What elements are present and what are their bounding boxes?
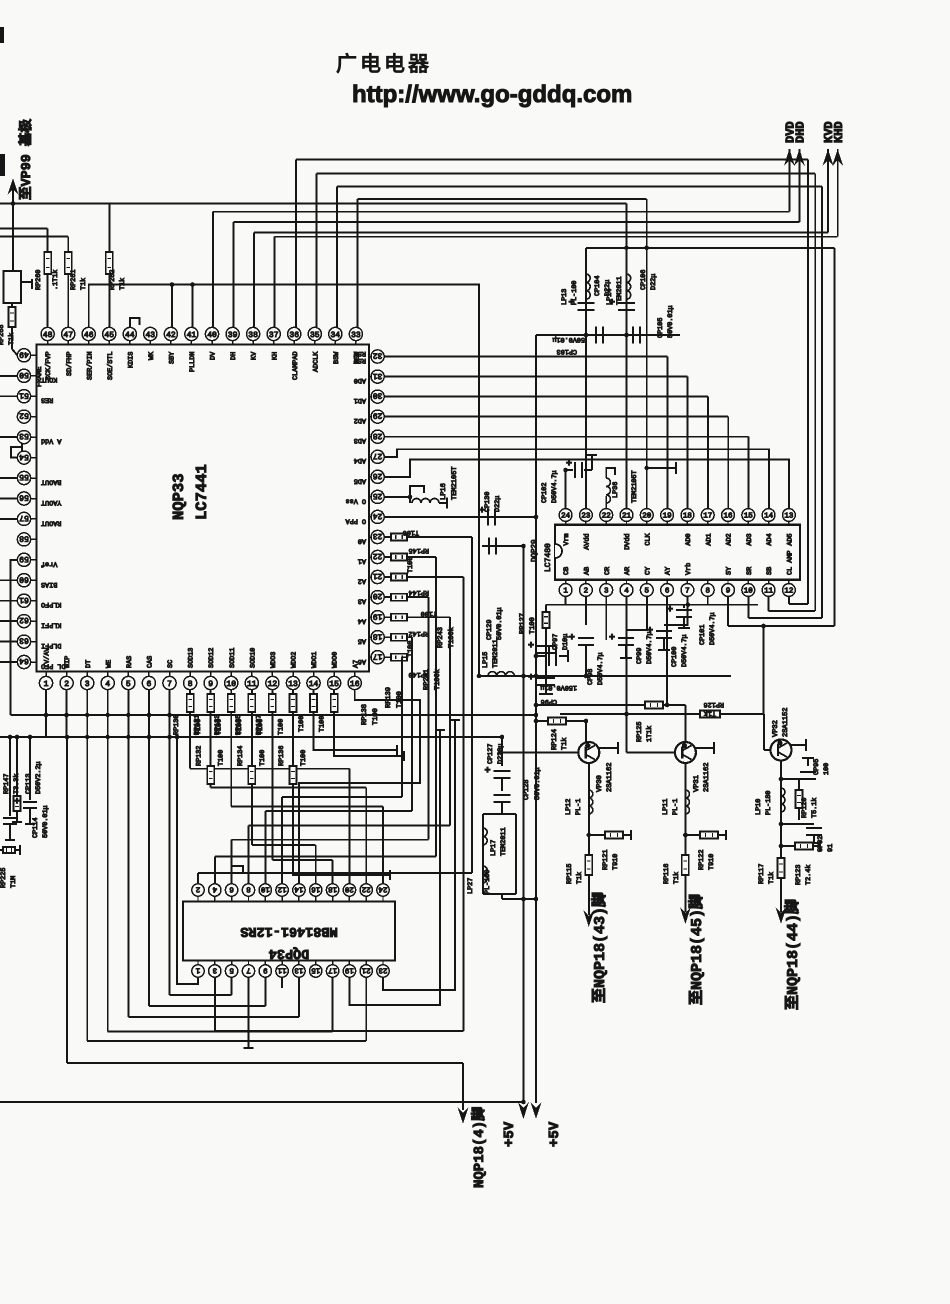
svg-text:A Vdd: A Vdd — [41, 437, 61, 445]
svg-text:A7: A7 — [352, 660, 360, 668]
svg-text:RP132: RP132 — [196, 746, 204, 766]
svg-text:4: 4 — [212, 884, 217, 892]
svg-text:PL-100: PL-100 — [571, 281, 579, 305]
svg-text:23: 23 — [581, 512, 591, 521]
svg-text:46: 46 — [84, 331, 94, 340]
svg-text:91: 91 — [827, 844, 835, 852]
svg-text:22: 22 — [373, 551, 383, 560]
svg-text:1T1k: 1T1k — [646, 726, 654, 742]
svg-text:+: + — [647, 626, 653, 637]
svg-text:CP127: CP127 — [487, 744, 495, 764]
svg-text:PL-1: PL-1 — [575, 799, 583, 815]
svg-text:AD4: AD4 — [354, 456, 366, 464]
svg-text:24: 24 — [561, 512, 571, 521]
svg-text:DT: DT — [85, 660, 93, 668]
svg-text:24: 24 — [373, 511, 383, 520]
svg-text:RP116: RP116 — [663, 864, 671, 884]
svg-text:52: 52 — [19, 411, 29, 420]
svg-text:CP96: CP96 — [541, 697, 557, 705]
svg-text:23: 23 — [373, 531, 383, 540]
svg-text:RP131: RP131 — [194, 715, 202, 735]
svg-text:T100: T100 — [403, 528, 419, 536]
svg-text:DQP29: DQP29 — [530, 539, 539, 562]
svg-text:VP31: VP31 — [693, 775, 701, 792]
svg-text:17: 17 — [703, 513, 712, 521]
svg-text:62: 62 — [19, 615, 29, 624]
svg-text:D220μ: D220μ — [497, 744, 505, 764]
svg-text:16: 16 — [723, 512, 733, 521]
svg-text:D22μ: D22μ — [650, 274, 658, 290]
svg-text:100: 100 — [823, 763, 831, 775]
svg-text:KLPFO: KLPFO — [41, 600, 61, 608]
svg-text:42: 42 — [166, 331, 176, 340]
svg-text:SY: SY — [726, 567, 734, 575]
svg-text:16: 16 — [350, 680, 360, 689]
svg-text:RP145: RP145 — [409, 546, 429, 554]
svg-text:T100: T100 — [421, 609, 437, 617]
svg-text:NQP18(4)脚: NQP18(4)脚 — [471, 1107, 488, 1188]
svg-text:58: 58 — [19, 534, 29, 543]
svg-text:AB: AB — [584, 567, 592, 575]
svg-text:17: 17 — [373, 651, 383, 660]
svg-text:59: 59 — [19, 554, 29, 563]
svg-text:LP27: LP27 — [467, 878, 475, 894]
svg-text:SD/FHP: SD/FHP — [66, 352, 74, 376]
svg-text:CR: CR — [604, 567, 612, 575]
svg-text:18: 18 — [328, 884, 337, 893]
svg-text:TEM2011: TEM2011 — [492, 639, 500, 668]
svg-text:VP30: VP30 — [596, 775, 604, 792]
svg-text:AD2: AD2 — [354, 416, 366, 424]
svg-text:http://www.go-gddq.com: http://www.go-gddq.com — [352, 81, 632, 108]
svg-text:RP137: RP137 — [255, 715, 263, 735]
svg-text:26: 26 — [373, 471, 383, 480]
svg-text:RP241: RP241 — [423, 669, 431, 690]
svg-text:T100k: T100k — [447, 627, 456, 648]
svg-text:27: 27 — [373, 451, 383, 460]
svg-text:7: 7 — [167, 680, 172, 689]
svg-text:T1k: T1k — [704, 709, 716, 717]
svg-text:PL-1: PL-1 — [672, 799, 680, 815]
svg-text:T100: T100 — [218, 750, 226, 766]
svg-text:4: 4 — [624, 588, 629, 596]
svg-text:9: 9 — [208, 680, 213, 689]
svg-text:15: 15 — [744, 513, 754, 521]
svg-text:CP106: CP106 — [640, 270, 648, 290]
svg-text:DVdd: DVdd — [624, 533, 632, 549]
svg-text:D50V4.7μ: D50V4.7μ — [597, 652, 605, 685]
svg-text:10: 10 — [260, 884, 270, 893]
svg-text:T1k: T1k — [80, 278, 88, 290]
svg-text:T100: T100 — [407, 557, 415, 573]
svg-text:50V0.01μ: 50V0.01μ — [534, 767, 542, 800]
svg-text:CLK: CLK — [644, 532, 652, 545]
svg-text:+5V: +5V — [547, 1121, 563, 1147]
svg-text:64: 64 — [19, 656, 29, 665]
svg-text:广电电器: 广电电器 — [336, 52, 432, 76]
svg-text:PL-180: PL-180 — [765, 791, 773, 815]
svg-text:13: 13 — [288, 680, 298, 689]
svg-text:+: + — [485, 766, 491, 777]
svg-text:RP260: RP260 — [35, 270, 43, 290]
svg-text:50V0.01μ: 50V0.01μ — [667, 305, 675, 338]
svg-text:2: 2 — [196, 884, 201, 893]
svg-text:21: 21 — [373, 571, 383, 580]
svg-text:RP123: RP123 — [795, 865, 803, 885]
svg-text:RES: RES — [41, 396, 53, 404]
svg-text:RP117: RP117 — [758, 864, 766, 884]
svg-text:至VP99 基极: 至VP99 基极 — [18, 118, 35, 200]
svg-text:O PPA: O PPA — [345, 516, 366, 524]
svg-text:3: 3 — [212, 965, 217, 974]
svg-text:AD3: AD3 — [746, 533, 754, 545]
svg-text:WDO0: WDO0 — [332, 652, 340, 668]
svg-text:A5: A5 — [358, 637, 366, 645]
svg-text:LC7480: LC7480 — [544, 543, 553, 572]
svg-text:T3.3k: T3.3k — [13, 774, 21, 794]
svg-text:BAOUT: BAOUT — [41, 478, 61, 486]
svg-text:9: 9 — [263, 965, 268, 974]
svg-text:RP126: RP126 — [704, 700, 724, 708]
svg-text:LP11: LP11 — [662, 799, 670, 815]
svg-text:T100: T100 — [372, 708, 380, 725]
svg-text:AR: AR — [624, 567, 632, 575]
svg-text:CP104: CP104 — [594, 276, 602, 296]
svg-text:44: 44 — [125, 331, 135, 340]
svg-text:AD1: AD1 — [354, 396, 366, 404]
svg-text:AY: AY — [665, 567, 673, 575]
svg-text:Vrb: Vrb — [685, 563, 693, 575]
svg-text:KHD: KHD — [832, 121, 846, 143]
svg-text:CAS: CAS — [147, 656, 155, 668]
svg-text:6: 6 — [665, 587, 670, 596]
svg-text:12: 12 — [268, 680, 278, 689]
svg-text:SOD10: SOD10 — [249, 648, 257, 668]
svg-text:25: 25 — [373, 491, 383, 500]
svg-text:3: 3 — [85, 680, 90, 689]
svg-text:WDO1: WDO1 — [311, 652, 319, 668]
svg-text:ADCLK: ADCLK — [312, 351, 320, 372]
svg-text:CP95: CP95 — [813, 759, 821, 775]
svg-text:SOD13: SOD13 — [188, 648, 196, 668]
svg-text:A4: A4 — [358, 617, 366, 625]
svg-text:12: 12 — [278, 884, 287, 893]
svg-text:VP32: VP32 — [772, 720, 780, 737]
svg-text:T910: T910 — [708, 854, 716, 870]
svg-text:至NQP18(43)脚: 至NQP18(43)脚 — [591, 892, 609, 1003]
svg-text:T1k: T1k — [673, 872, 681, 884]
svg-text:AD5: AD5 — [787, 533, 795, 545]
svg-text:5: 5 — [126, 680, 131, 689]
svg-text:19: 19 — [663, 512, 672, 521]
svg-text:33: 33 — [351, 331, 361, 340]
svg-text:LP13: LP13 — [561, 289, 569, 305]
svg-text:37: 37 — [269, 331, 279, 340]
svg-text:BSW: BSW — [333, 351, 341, 364]
svg-text:BIAS: BIAS — [41, 580, 57, 588]
svg-text:2SA1162: 2SA1162 — [606, 763, 614, 792]
svg-text:9: 9 — [726, 587, 731, 596]
svg-text:T100: T100 — [407, 641, 415, 657]
svg-text:D50V4.7μ: D50V4.7μ — [551, 470, 559, 503]
svg-text:2SA1162: 2SA1162 — [703, 763, 711, 792]
svg-text:AD2: AD2 — [726, 533, 734, 545]
svg-text:21: 21 — [361, 965, 371, 974]
svg-text:CP113: CP113 — [25, 774, 33, 794]
svg-text:8: 8 — [188, 680, 193, 689]
svg-text:RP121: RP121 — [602, 850, 610, 870]
svg-text:14: 14 — [309, 680, 319, 689]
svg-text:SER/PIN: SER/PIN — [86, 351, 94, 380]
svg-text:RP122: RP122 — [698, 850, 706, 870]
svg-text:43: 43 — [145, 331, 155, 340]
svg-text:T100: T100 — [396, 691, 404, 708]
svg-text:T1k: T1k — [576, 872, 584, 884]
svg-text:RP125: RP125 — [636, 722, 644, 742]
svg-text:10: 10 — [226, 680, 236, 689]
svg-text:+: + — [569, 633, 575, 644]
svg-text:17: 17 — [328, 965, 337, 973]
svg-text:YAOUT: YAOUT — [41, 498, 61, 506]
svg-text:8: 8 — [705, 587, 710, 596]
svg-text:7: 7 — [246, 965, 251, 973]
svg-text:CP130: CP130 — [484, 492, 492, 512]
svg-text:D50V4.7μ: D50V4.7μ — [681, 634, 689, 667]
svg-text:AD4: AD4 — [766, 533, 774, 545]
svg-text:+: + — [566, 459, 572, 470]
svg-text:CP103: CP103 — [557, 347, 577, 355]
svg-text:29: 29 — [373, 411, 383, 420]
svg-text:O Vss: O Vss — [346, 496, 366, 504]
svg-text:11: 11 — [247, 680, 257, 689]
svg-text:DHD: DHD — [794, 121, 808, 143]
svg-text:D22μ: D22μ — [494, 496, 502, 512]
svg-text:+: + — [14, 797, 20, 808]
svg-text:T100: T100 — [300, 750, 308, 766]
svg-text:31: 31 — [373, 371, 383, 380]
svg-text:TEM2011: TEM2011 — [500, 827, 508, 856]
svg-text:PLLDN: PLLDN — [189, 352, 197, 372]
svg-text:TEM2105T: TEM2105T — [451, 466, 459, 500]
svg-text:T1M: T1M — [10, 876, 18, 888]
svg-text:SC: SC — [167, 660, 175, 668]
svg-text:2: 2 — [584, 587, 589, 596]
svg-text:WIP: WIP — [64, 656, 72, 668]
svg-text:16: 16 — [311, 884, 321, 893]
svg-text:1: 1 — [44, 680, 49, 689]
svg-text:LP17: LP17 — [490, 840, 498, 856]
svg-text:CLAMPAD: CLAMPAD — [292, 351, 300, 380]
svg-text:41: 41 — [187, 331, 197, 340]
svg-text:11: 11 — [277, 965, 287, 973]
svg-text:RP136: RP136 — [278, 746, 286, 766]
svg-text:AD1: AD1 — [705, 533, 713, 545]
svg-text:SB: SB — [766, 567, 774, 575]
svg-text:TEM2011: TEM2011 — [616, 276, 624, 305]
svg-text:SR: SR — [746, 567, 754, 575]
svg-text:CP100: CP100 — [671, 647, 679, 667]
svg-text:SOE/STL: SOE/STL — [107, 351, 115, 380]
svg-text:34: 34 — [330, 331, 340, 340]
svg-text:21: 21 — [622, 512, 632, 521]
svg-text:LP10: LP10 — [755, 799, 763, 815]
svg-text:30: 30 — [373, 391, 383, 400]
svg-text:T100: T100 — [529, 617, 537, 634]
svg-text:RSW: RSW — [353, 349, 366, 357]
svg-text:A3: A3 — [358, 597, 366, 605]
svg-text:50V0.01μ: 50V0.01μ — [42, 805, 50, 838]
svg-text:RP133: RP133 — [214, 715, 222, 735]
svg-text:51: 51 — [19, 390, 29, 399]
svg-text:56: 56 — [19, 493, 29, 502]
svg-text:T1k: T1k — [768, 872, 776, 884]
svg-text:15: 15 — [311, 965, 321, 973]
svg-text:MB81461-12RS: MB81461-12RS — [240, 923, 337, 938]
svg-text:AVdd: AVdd — [584, 533, 592, 549]
svg-text:53: 53 — [19, 431, 29, 440]
svg-text:40: 40 — [207, 331, 217, 340]
svg-text:WDO3: WDO3 — [270, 652, 278, 668]
svg-text:DQP34: DQP34 — [269, 945, 310, 960]
svg-text:KH: KH — [271, 352, 279, 360]
svg-text:SBY: SBY — [169, 352, 177, 364]
svg-text:RP225: RP225 — [0, 868, 8, 888]
svg-text:WK: WK — [148, 351, 156, 360]
svg-text:T100: T100 — [259, 750, 267, 766]
svg-text:T1k: T1k — [560, 737, 569, 750]
svg-text:20: 20 — [373, 591, 383, 600]
svg-text:WDO2: WDO2 — [291, 652, 299, 668]
svg-text:T100: T100 — [277, 719, 285, 735]
svg-text:13: 13 — [784, 512, 794, 521]
svg-text:A2: A2 — [358, 577, 366, 585]
svg-text:T910: T910 — [612, 854, 620, 870]
svg-text:A1: A1 — [358, 557, 366, 565]
svg-text:63: 63 — [19, 636, 29, 645]
svg-text:35: 35 — [310, 331, 320, 340]
svg-text:39: 39 — [228, 331, 238, 340]
svg-text:18: 18 — [373, 631, 383, 640]
svg-text:RP134: RP134 — [237, 746, 245, 766]
svg-text:60: 60 — [19, 574, 29, 583]
svg-text:RP142: RP142 — [409, 629, 429, 637]
svg-text:CP114: CP114 — [32, 818, 40, 838]
svg-text:CP101: CP101 — [699, 625, 707, 645]
svg-text:AD0: AD0 — [354, 376, 366, 384]
svg-text:RP127: RP127 — [519, 613, 527, 634]
svg-text:150V0.01μ: 150V0.01μ — [540, 683, 577, 691]
svg-text:RP120: RP120 — [801, 798, 809, 818]
svg-text:49: 49 — [19, 349, 29, 358]
svg-text:RP139: RP139 — [385, 687, 393, 708]
svg-text:A0: A0 — [358, 537, 366, 545]
svg-text:Vrm: Vrm — [563, 533, 571, 545]
svg-text:4: 4 — [105, 680, 110, 689]
svg-text:AD3: AD3 — [354, 436, 366, 444]
svg-text:24: 24 — [378, 884, 388, 893]
svg-text:RP130: RP130 — [173, 715, 181, 735]
svg-text:20: 20 — [344, 884, 354, 893]
svg-text:SOD12: SOD12 — [208, 648, 216, 668]
svg-text:10: 10 — [744, 587, 754, 596]
svg-text:54: 54 — [19, 452, 29, 461]
svg-text:LP36: LP36 — [612, 482, 620, 498]
svg-text:T100k: T100k — [433, 669, 442, 690]
svg-text:RP115: RP115 — [566, 864, 574, 884]
svg-text:12: 12 — [784, 587, 793, 596]
svg-text:47: 47 — [63, 331, 73, 340]
svg-text:CY: CY — [644, 567, 652, 575]
svg-text:61: 61 — [19, 595, 29, 604]
svg-text:RAS: RAS — [126, 656, 134, 668]
svg-text:AD5: AD5 — [354, 476, 366, 484]
svg-text:18: 18 — [683, 512, 692, 521]
svg-text:LP15: LP15 — [482, 652, 490, 668]
svg-text:5: 5 — [645, 588, 650, 596]
svg-text:RP243: RP243 — [437, 627, 445, 648]
svg-text:WE: WE — [105, 660, 113, 668]
svg-text:AD0: AD0 — [685, 533, 693, 545]
svg-text:RP262: RP262 — [109, 270, 117, 290]
svg-text:CP99: CP99 — [636, 648, 644, 664]
svg-text:KDIS: KDIS — [127, 352, 135, 368]
svg-text:50: 50 — [19, 370, 29, 379]
svg-text:CP129: CP129 — [486, 620, 494, 640]
svg-text:14: 14 — [764, 513, 774, 521]
svg-text:LP16: LP16 — [440, 483, 448, 500]
svg-text:6: 6 — [229, 884, 234, 893]
svg-text:LC7441: LC7441 — [193, 464, 211, 520]
svg-text:+: + — [667, 605, 673, 616]
svg-text:D50V4.7μ: D50V4.7μ — [709, 612, 717, 645]
svg-text:TEM2105T: TEM2105T — [631, 470, 639, 503]
svg-text:CL AMP: CL AMP — [787, 551, 795, 575]
svg-text:RP144: RP144 — [409, 588, 429, 596]
svg-text:+: + — [528, 641, 534, 652]
svg-text:55: 55 — [19, 472, 29, 481]
svg-text:PL-100: PL-100 — [484, 870, 492, 894]
svg-text:14: 14 — [294, 884, 304, 892]
svg-text:KLPFI: KLPFI — [41, 621, 61, 629]
svg-text:38: 38 — [248, 331, 258, 340]
svg-text:CP105: CP105 — [657, 318, 665, 338]
svg-text:5: 5 — [229, 965, 234, 973]
svg-text:23: 23 — [378, 965, 388, 974]
svg-text:13: 13 — [294, 965, 304, 974]
svg-text:22: 22 — [362, 884, 371, 893]
svg-text:48: 48 — [43, 331, 53, 340]
svg-text:RP261: RP261 — [70, 270, 78, 290]
svg-text:50V0.01μ: 50V0.01μ — [496, 607, 504, 640]
svg-text:RP124: RP124 — [551, 729, 559, 750]
svg-text:T5.1k: T5.1k — [811, 798, 819, 818]
svg-text:Vref: Vref — [41, 559, 57, 567]
svg-text:至NQP18(44)脚: 至NQP18(44)脚 — [784, 899, 802, 1010]
svg-text:+5V: +5V — [502, 1121, 518, 1147]
svg-text:19: 19 — [345, 965, 354, 974]
svg-text:NQP33: NQP33 — [170, 473, 188, 520]
svg-text:6: 6 — [146, 680, 151, 689]
svg-text:CB: CB — [563, 567, 571, 575]
svg-text:KOUT: KOUT — [41, 375, 57, 383]
svg-text:至NQP18(45)脚: 至NQP18(45)脚 — [688, 894, 706, 1005]
svg-text:+: + — [528, 673, 534, 684]
svg-text:T100: T100 — [319, 716, 327, 732]
svg-text:19: 19 — [373, 611, 383, 620]
svg-text:RP268: RP268 — [0, 325, 6, 345]
svg-text:45: 45 — [104, 331, 114, 340]
svg-text:7: 7 — [685, 588, 690, 596]
